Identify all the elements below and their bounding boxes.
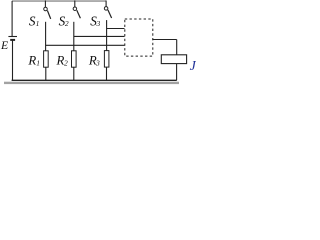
svg-text:J: J <box>190 59 196 74</box>
svg-text:1: 1 <box>36 19 40 28</box>
svg-text:E: E <box>0 38 9 52</box>
svg-text:3: 3 <box>95 59 100 68</box>
svg-text:R: R <box>27 54 36 68</box>
svg-text:2: 2 <box>65 19 69 28</box>
svg-text:3: 3 <box>96 19 101 28</box>
svg-text:1: 1 <box>36 59 40 68</box>
svg-text:2: 2 <box>64 59 68 68</box>
